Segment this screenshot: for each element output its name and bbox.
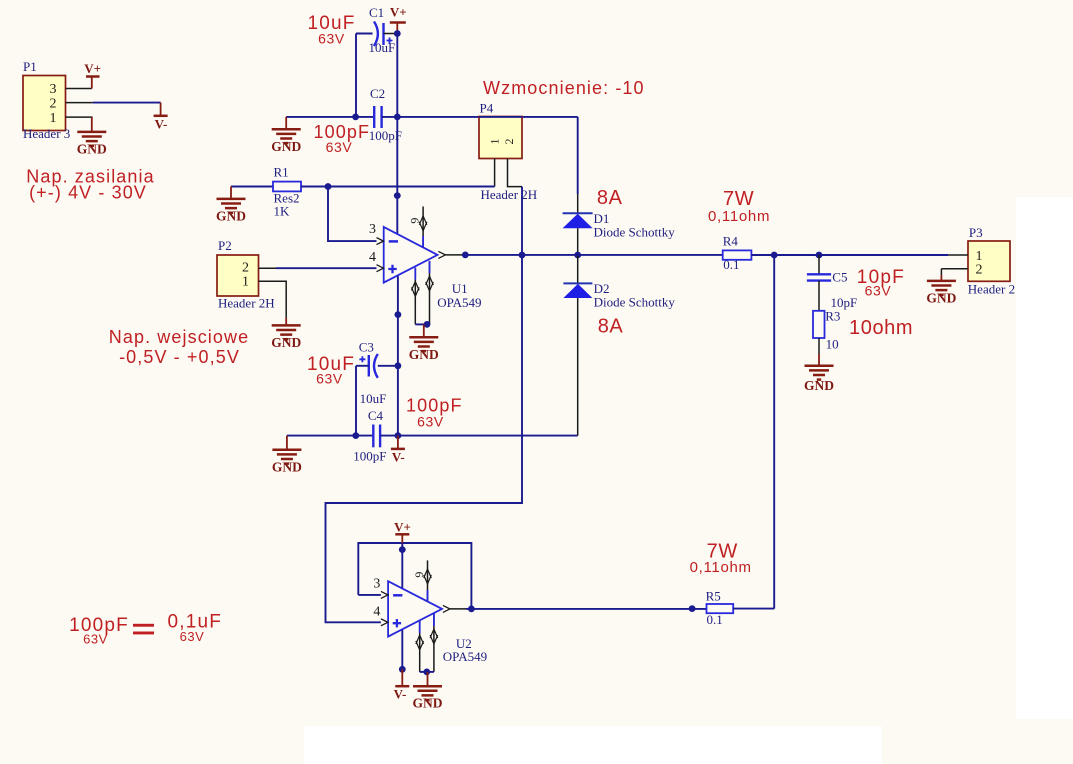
junction dot C4 left	[352, 432, 359, 439]
junction dot C3 right	[395, 362, 402, 369]
svg-text:7W: 7W	[723, 188, 754, 210]
junction dot diode node	[574, 252, 581, 259]
svg-text:V-: V-	[394, 687, 407, 702]
op-amp U2	[373, 560, 487, 672]
ground at U2	[413, 672, 443, 711]
power V+ main	[390, 5, 407, 34]
capacitor C5	[807, 255, 857, 311]
wire C3 left drop	[355, 366, 357, 436]
svg-text:U1: U1	[452, 281, 468, 296]
svg-text:Diode Schottky: Diode Schottky	[594, 225, 676, 240]
svg-text:P3: P3	[969, 225, 983, 240]
svg-text:2: 2	[50, 96, 57, 111]
svg-text:1K: 1K	[274, 203, 291, 218]
power V- at U2	[394, 669, 410, 701]
svg-text:100pF: 100pF	[369, 128, 402, 143]
note capacitor equivalence	[69, 611, 222, 646]
svg-text:Wzmocnienie: -10: Wzmocnienie: -10	[483, 78, 645, 98]
resistor R4	[723, 234, 752, 272]
svg-text:10: 10	[826, 336, 839, 351]
white margin bottom	[304, 727, 882, 764]
svg-text:-0,5V - +0,5V: -0,5V - +0,5V	[119, 347, 240, 367]
svg-text:63V: 63V	[83, 631, 108, 646]
P1 pin 2 wire	[66, 102, 93, 104]
junction dot R1 out	[325, 183, 332, 190]
svg-text:GND: GND	[926, 290, 956, 305]
svg-text:P1: P1	[23, 59, 37, 74]
svg-text:0,11ohm: 0,11ohm	[708, 208, 770, 225]
P3 pin1 wire	[948, 254, 968, 256]
junction dot U2 Vminus	[399, 666, 406, 673]
svg-text:63V: 63V	[180, 629, 205, 644]
svg-text:C4: C4	[368, 408, 384, 423]
wire P2 pin2 to U1 pin4	[259, 267, 277, 269]
connector P1	[23, 59, 66, 131]
wire R1 node to U1 pin3	[328, 187, 377, 242]
svg-text:1: 1	[488, 139, 502, 145]
junction dot U1 output	[462, 252, 469, 259]
svg-text:GND: GND	[409, 347, 439, 362]
op-amp U1	[369, 207, 482, 325]
note 7W R4	[708, 188, 770, 225]
diode D2	[563, 281, 675, 310]
svg-text:63V: 63V	[865, 282, 892, 298]
wire P4 pin2 to output	[521, 187, 523, 255]
junction dot U1 gnd pins	[424, 321, 431, 328]
svg-text:4: 4	[369, 250, 376, 265]
svg-text:10uF: 10uF	[369, 40, 396, 55]
ground at P3	[926, 275, 956, 305]
capacitor C3	[307, 339, 398, 406]
ground at C4	[272, 436, 302, 475]
svg-text:Header 3: Header 3	[23, 126, 70, 141]
note 10pF	[857, 267, 905, 299]
ground at C2	[271, 117, 301, 154]
wire output to D2	[577, 255, 579, 283]
wire P1 pin2 to V-	[93, 102, 161, 104]
note 7W R5	[690, 541, 752, 577]
svg-text:Diode Schottky: Diode Schottky	[594, 295, 676, 310]
junction dot U2 gnd pins	[423, 669, 430, 676]
svg-text:3: 3	[373, 576, 380, 591]
svg-text:9: 9	[412, 572, 426, 578]
svg-text:10ohm: 10ohm	[849, 317, 913, 339]
wire U2 Vminus pin	[401, 630, 403, 669]
wire output node down to U2 pin4	[326, 255, 523, 622]
power V+ at U2	[394, 520, 411, 543]
svg-text:8A: 8A	[598, 316, 624, 338]
svg-text:Header 2H: Header 2H	[218, 295, 275, 310]
svg-text:0.1: 0.1	[723, 257, 739, 272]
junction dot below U1	[395, 311, 402, 318]
svg-text:V+: V+	[84, 61, 101, 76]
svg-text:0,11ohm: 0,11ohm	[690, 559, 752, 576]
junction dot C1/V+	[394, 30, 401, 37]
connector P3	[968, 225, 1010, 281]
ground at R3	[804, 354, 834, 393]
resistor R1	[231, 164, 495, 218]
svg-text:D2: D2	[594, 281, 610, 296]
wire V+ rail	[396, 34, 398, 234]
svg-text:GND: GND	[804, 378, 834, 393]
wire R3 to gnd	[818, 338, 820, 354]
wire across P4 top	[479, 116, 522, 118]
junction dot R5 left	[689, 605, 696, 612]
wire U1 Vminus pin down	[397, 276, 399, 436]
wire R5 to R4 node	[733, 608, 774, 610]
svg-text:2: 2	[976, 262, 983, 277]
ground at U1	[409, 324, 439, 361]
svg-text:Nap. wejsciowe: Nap. wejsciowe	[109, 327, 249, 347]
wire D2 to Vminus rail	[577, 298, 579, 436]
wire R4 node down to R5	[773, 255, 775, 609]
P1 pin 3 wire	[66, 88, 92, 90]
ground at P1	[77, 117, 107, 156]
junction dot P4 feedback	[519, 252, 526, 259]
svg-text:GND: GND	[216, 208, 246, 223]
resistor R3	[813, 309, 840, 352]
svg-text:GND: GND	[413, 696, 443, 711]
ground at P2	[271, 318, 301, 350]
svg-text:V+: V+	[394, 520, 411, 535]
svg-text:2: 2	[502, 139, 516, 145]
junction dot C2 right	[394, 114, 401, 121]
wire D1 to output	[577, 228, 579, 255]
capacitor C2	[286, 86, 578, 155]
svg-text:R4: R4	[723, 234, 739, 249]
note supply voltage	[26, 167, 154, 203]
connector P4	[479, 100, 537, 202]
svg-text:V+: V+	[390, 5, 407, 20]
wire top rail to D1	[577, 117, 579, 194]
junction dot R4 right	[771, 252, 778, 259]
junction dot C2 left	[352, 114, 359, 121]
svg-text:9: 9	[408, 218, 422, 224]
svg-text:C1: C1	[369, 5, 384, 20]
connector P2	[217, 238, 259, 296]
svg-text:1: 1	[242, 275, 249, 290]
svg-text:P4: P4	[480, 100, 494, 115]
ground at R1	[216, 187, 246, 224]
resistor R5	[706, 589, 734, 627]
svg-text:0.1: 0.1	[707, 612, 723, 627]
svg-text:1: 1	[50, 111, 57, 126]
svg-text:100pF: 100pF	[353, 449, 386, 464]
wire output row	[465, 254, 722, 256]
note input voltage	[109, 327, 249, 367]
diode D1	[563, 211, 676, 239]
svg-text:V-: V-	[155, 116, 168, 131]
svg-text:V-: V-	[392, 450, 405, 465]
P3 pin2 wire	[941, 269, 968, 275]
wire P2 pin1	[259, 281, 287, 318]
wire U2 out to R5	[466, 608, 707, 610]
junction dot C4 right	[395, 432, 402, 439]
capacitor C4	[287, 396, 578, 464]
junction dot C5 top	[816, 252, 823, 259]
wire C1 left drop	[355, 34, 357, 117]
svg-text:63V: 63V	[316, 371, 343, 387]
svg-text:R1: R1	[274, 164, 289, 179]
wire R4 to P3	[751, 254, 948, 256]
svg-text:C5: C5	[832, 269, 847, 284]
capacitor C1	[307, 5, 397, 55]
junction dot U2 output	[468, 606, 475, 613]
svg-text:3: 3	[369, 222, 376, 237]
svg-text:10uF: 10uF	[360, 391, 387, 406]
svg-text:Header 2: Header 2	[968, 281, 1015, 296]
svg-text:3: 3	[50, 82, 57, 97]
svg-text:C2: C2	[370, 86, 385, 101]
svg-text:OPA549: OPA549	[443, 649, 487, 664]
svg-text:63V: 63V	[417, 414, 444, 430]
svg-text:GND: GND	[271, 139, 301, 154]
junction dot U2 V+	[399, 546, 406, 553]
P1 pin 1 wire	[66, 117, 92, 119]
svg-text:GND: GND	[77, 141, 107, 156]
svg-text:Header 2H: Header 2H	[481, 187, 538, 202]
wire U2 feedback loop	[358, 543, 471, 609]
svg-text:R3: R3	[825, 309, 840, 324]
wire U2 V+ pin	[401, 543, 403, 588]
svg-text:R5: R5	[706, 589, 721, 604]
svg-text:2: 2	[242, 260, 249, 275]
svg-text:4: 4	[373, 604, 380, 619]
svg-text:(+-) 4V - 30V: (+-) 4V - 30V	[29, 183, 147, 203]
svg-text:C3: C3	[359, 339, 374, 354]
power V- at C4	[391, 436, 405, 465]
power V+ at P1	[84, 61, 101, 89]
junction dot V+ rail to U1	[394, 192, 401, 199]
svg-text:GND: GND	[272, 459, 302, 474]
svg-text:8A: 8A	[597, 187, 623, 209]
svg-text:P2: P2	[218, 238, 232, 253]
white margin right	[1016, 197, 1073, 719]
power V- at P1	[154, 103, 168, 132]
svg-text:63V: 63V	[326, 139, 353, 155]
svg-text:GND: GND	[271, 335, 301, 350]
svg-text:63V: 63V	[318, 31, 345, 47]
svg-text:OPA549: OPA549	[437, 295, 481, 310]
